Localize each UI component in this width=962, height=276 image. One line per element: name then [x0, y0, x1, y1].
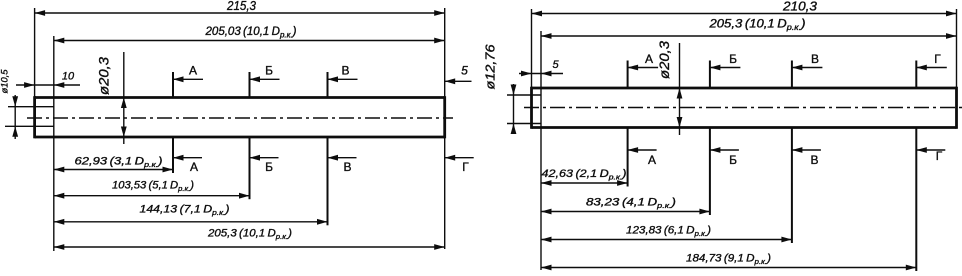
- svg-text:210,3: 210,3: [782, 0, 818, 13]
- svg-text:А: А: [645, 52, 653, 66]
- svg-text:А: А: [189, 63, 197, 77]
- svg-text:ø12,76: ø12,76: [483, 44, 498, 90]
- svg-text:А: А: [648, 153, 656, 167]
- svg-text:В: В: [810, 153, 818, 167]
- svg-text:ø20,3: ø20,3: [96, 57, 112, 95]
- svg-text:10: 10: [62, 71, 75, 83]
- svg-text:В: В: [343, 160, 351, 174]
- svg-text:В: В: [341, 63, 349, 77]
- svg-text:5: 5: [552, 59, 559, 71]
- svg-text:Б: Б: [729, 52, 737, 66]
- svg-text:5: 5: [461, 64, 468, 78]
- svg-text:Г: Г: [462, 160, 469, 174]
- svg-text:Б: Б: [729, 153, 737, 167]
- svg-text:215,3: 215,3: [226, 0, 257, 13]
- svg-text:ø10,5: ø10,5: [0, 69, 10, 94]
- svg-text:А: А: [190, 160, 198, 174]
- svg-text:Б: Б: [265, 63, 273, 77]
- svg-text:Г: Г: [936, 149, 943, 163]
- svg-text:Б: Б: [265, 160, 273, 174]
- svg-text:ø20,3: ø20,3: [656, 41, 672, 79]
- svg-text:Г: Г: [934, 52, 941, 66]
- svg-text:В: В: [811, 52, 819, 66]
